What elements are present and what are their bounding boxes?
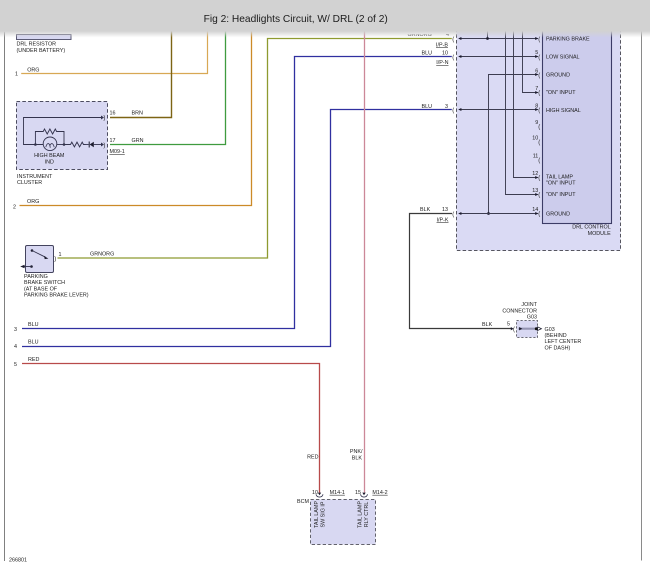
svg-text:5: 5 — [535, 50, 538, 56]
svg-text:DRL RESISTOR: DRL RESISTOR — [17, 41, 57, 47]
svg-text:DRL CONTROL: DRL CONTROL — [572, 224, 610, 230]
svg-text:14: 14 — [532, 207, 538, 213]
module name label — [572, 224, 611, 237]
node junction right of lamp — [63, 143, 66, 146]
svg-text:3: 3 — [445, 104, 448, 110]
svg-text:(: ( — [538, 37, 540, 43]
svg-text:(: ( — [538, 212, 540, 218]
svg-text:): ) — [103, 115, 105, 121]
svg-text:(UNDER BATTERY): (UNDER BATTERY) — [17, 48, 66, 54]
svg-text:BLK: BLK — [420, 207, 431, 213]
svg-text:PARKING BRAKE LEVER): PARKING BRAKE LEVER) — [24, 293, 89, 299]
svg-text:17: 17 — [110, 138, 116, 144]
joint connector G03 — [502, 302, 541, 338]
module interior wire high signal — [459, 109, 538, 111]
svg-text:JOINT: JOINT — [521, 302, 537, 308]
svg-text:1: 1 — [15, 71, 18, 77]
svg-text:ORG: ORG — [27, 199, 39, 205]
svg-text:RED: RED — [307, 455, 318, 461]
svg-text:8: 8 — [535, 104, 538, 110]
module outer connector I/P-K — [452, 212, 461, 218]
module interior wire ground pin6 — [487, 75, 538, 215]
DRL control module outer dashed box — [457, 16, 621, 251]
module interior wire parking brake — [459, 30, 538, 40]
svg-text:TAIL LAMP: TAIL LAMP — [358, 501, 364, 528]
DRL control module inner box U1 — [543, 16, 612, 224]
module pin 5 low signal — [535, 50, 579, 61]
svg-text:(: ( — [452, 108, 454, 114]
svg-text:I/P-K: I/P-K — [437, 217, 449, 223]
svg-text:ORG: ORG — [27, 67, 39, 73]
svg-text:I/P-B: I/P-B — [436, 42, 448, 48]
svg-text:10: 10 — [442, 51, 448, 57]
svg-text:HIGH BEAM: HIGH BEAM — [34, 153, 65, 159]
svg-text:(: ( — [538, 158, 540, 164]
svg-text:SW SIG IP: SW SIG IP — [321, 501, 327, 527]
page right border — [641, 30, 643, 561]
svg-text:): ) — [54, 256, 56, 262]
svg-text:(AT BASE OF: (AT BASE OF — [24, 286, 58, 292]
svg-text:OF DASH): OF DASH) — [545, 345, 571, 351]
wire GRNORG — [58, 39, 452, 259]
svg-text:GRNORG: GRNORG — [90, 252, 114, 258]
svg-text:(: ( — [538, 90, 540, 96]
svg-text:G03: G03 — [527, 315, 537, 321]
module pin 8 high signal — [535, 104, 581, 115]
svg-text:"ON" INPUT: "ON" INPUT — [546, 192, 576, 198]
parking brake switch S1 — [20, 246, 61, 273]
svg-text:G03: G03 — [545, 327, 555, 333]
module pin 4 parking brake — [535, 36, 590, 42]
svg-text:(: ( — [538, 108, 540, 114]
svg-text:M14-2: M14-2 — [372, 490, 387, 496]
module pin 12 tail lamp ON input — [532, 171, 576, 187]
svg-text:7: 7 — [535, 86, 538, 92]
resistor (parallel with lamp) — [35, 129, 64, 145]
svg-text:BLU: BLU — [422, 51, 433, 57]
module interior wire tail lamp ON input pin12 — [514, 30, 538, 178]
ground G03 label — [545, 327, 582, 352]
svg-text:M09-1: M09-1 — [110, 149, 125, 155]
svg-text:PNK/: PNK/ — [350, 449, 363, 455]
parking brake switch labels — [24, 274, 89, 299]
high beam indicator lamp — [34, 137, 65, 165]
wire RED 5 — [14, 357, 320, 493]
svg-text:13: 13 — [442, 207, 448, 213]
module pin 7 ON input — [535, 86, 576, 97]
svg-text:Fig 2: Headlights Circuit, W/: Fig 2: Headlights Circuit, W/ DRL (2 of … — [204, 14, 388, 25]
svg-text:M14-1: M14-1 — [330, 490, 345, 496]
svg-text:3: 3 — [14, 327, 17, 333]
module outer connector high signal — [452, 108, 461, 114]
svg-text:5: 5 — [507, 321, 510, 327]
svg-text:266801: 266801 — [9, 558, 27, 564]
BCM pin label TAIL LAMP SW SIG IP — [314, 501, 327, 528]
diode D1 — [86, 142, 102, 148]
BCM dashed box — [297, 499, 375, 544]
svg-text:6: 6 — [535, 68, 538, 74]
svg-text:LOW SIGNAL: LOW SIGNAL — [546, 54, 580, 60]
wire cluster pin16 internal — [24, 118, 102, 145]
wire GRNORG clipped label under title bar — [408, 32, 450, 38]
svg-text:9: 9 — [535, 120, 538, 126]
svg-text:IND: IND — [45, 159, 54, 165]
svg-text:"ON" INPUT: "ON" INPUT — [546, 181, 576, 187]
module pin 14 ground — [532, 207, 570, 218]
module outer connector I/P-B — [436, 37, 461, 49]
wire PNK/BLK — [350, 30, 365, 493]
wire BLU 3 — [14, 51, 452, 333]
svg-text:(: ( — [452, 37, 454, 43]
svg-text:BCM: BCM — [297, 499, 309, 505]
svg-text:MODULE: MODULE — [588, 231, 611, 237]
svg-text:(: ( — [452, 55, 454, 61]
module pin 6 ground — [535, 68, 570, 79]
svg-text:TAIL LAMP: TAIL LAMP — [546, 174, 573, 180]
resistor (series) — [64, 142, 86, 147]
wire BLU 4 — [14, 104, 452, 350]
cluster pin 16 connector — [101, 110, 143, 121]
svg-text:BLK: BLK — [482, 322, 493, 328]
svg-text:I/P-N: I/P-N — [436, 60, 448, 66]
svg-text:16: 16 — [110, 110, 116, 116]
svg-text:(: ( — [538, 73, 540, 79]
svg-text:(: ( — [513, 327, 515, 333]
svg-text:HIGH SIGNAL: HIGH SIGNAL — [546, 108, 581, 114]
module interior wire ON input pin7 — [523, 30, 538, 93]
page left border — [4, 32, 6, 561]
svg-text:10: 10 — [312, 490, 318, 496]
svg-text:(: ( — [538, 175, 540, 181]
svg-text:CLUSTER: CLUSTER — [17, 180, 42, 186]
svg-text:(: ( — [538, 192, 540, 198]
svg-text:2: 2 — [13, 205, 16, 211]
svg-text:(: ( — [538, 140, 540, 146]
svg-text:LEFT CENTER: LEFT CENTER — [545, 339, 582, 345]
svg-text:RED: RED — [28, 357, 39, 363]
svg-text:CONNECTOR: CONNECTOR — [502, 308, 537, 314]
svg-text:PARKING: PARKING — [24, 274, 48, 280]
svg-text:10: 10 — [532, 136, 538, 142]
wire GRN — [110, 30, 226, 145]
title bar — [0, 0, 650, 38]
svg-text:BRAKE SWITCH: BRAKE SWITCH — [24, 280, 65, 286]
instrument cluster dashed box — [17, 102, 108, 187]
svg-text:BRN: BRN — [132, 110, 143, 116]
svg-text:BLU: BLU — [28, 322, 39, 328]
svg-text:11: 11 — [533, 154, 539, 160]
wire BLK 13 to joint connector — [410, 207, 512, 328]
svg-text:BLU: BLU — [28, 340, 39, 346]
module interior wire low signal — [459, 56, 538, 58]
svg-text:5: 5 — [14, 362, 17, 368]
svg-text:12: 12 — [532, 171, 538, 177]
module pin 13 ON input — [532, 188, 576, 199]
wire lamp to series resistor — [57, 144, 64, 146]
svg-text:(: ( — [452, 212, 454, 218]
svg-text:INSTRUMENT: INSTRUMENT — [17, 174, 53, 180]
module interior wire ground pin14 — [459, 213, 538, 215]
svg-text:GRN: GRN — [132, 138, 144, 144]
svg-text:15: 15 — [355, 490, 361, 496]
svg-text:TAIL LAMP: TAIL LAMP — [314, 501, 320, 528]
svg-text:1: 1 — [59, 252, 62, 258]
svg-text:GROUND: GROUND — [546, 212, 570, 218]
svg-text:(: ( — [538, 124, 540, 130]
wire ORG 2 — [13, 30, 252, 211]
svg-text:GROUND: GROUND — [546, 73, 570, 79]
node junction left of lamp — [34, 143, 37, 146]
BCM pin 15 connector — [355, 490, 388, 497]
module interior wire ON input pin13 — [506, 30, 538, 195]
BCM pin 10 connector — [312, 490, 345, 497]
svg-text:4: 4 — [14, 344, 17, 350]
svg-text:13: 13 — [532, 188, 538, 194]
svg-text:BLU: BLU — [422, 104, 433, 110]
BCM pin label TAIL LAMP RLY CTRL — [358, 501, 371, 528]
svg-text:BLK: BLK — [352, 455, 363, 461]
module pin 9 — [535, 120, 540, 131]
svg-text:"ON" INPUT: "ON" INPUT — [546, 90, 576, 96]
wire BRN — [110, 30, 172, 118]
module pin 10 — [532, 136, 540, 147]
svg-text:): ) — [103, 143, 105, 149]
svg-text:(: ( — [538, 55, 540, 61]
wire ORG 1 — [15, 30, 208, 77]
svg-text:RLY CTRL: RLY CTRL — [364, 502, 370, 528]
cluster pin 17 connector — [101, 138, 144, 155]
svg-text:(BEHIND: (BEHIND — [545, 333, 567, 339]
DRL resistor box (top, cut by title bar) — [17, 35, 72, 55]
module pin 11 — [533, 154, 541, 165]
module outer connector I/P-N — [452, 55, 461, 61]
